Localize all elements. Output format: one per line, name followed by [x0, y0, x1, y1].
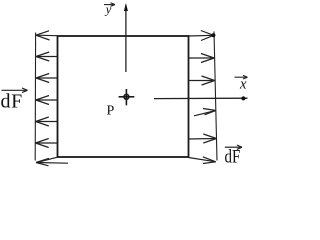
left dF arrow 3 — [36, 74, 57, 83]
left dF arrow 5 — [36, 117, 57, 126]
left dF arrow 7 (slanted at bottom corner) — [36, 157, 68, 166]
square plate element — [58, 36, 189, 157]
left load envelope line — [34, 33, 36, 161]
right dF arrow 4 (slightly slanted) — [194, 109, 216, 116]
right dF arrow 6 (slanted at bottom corner) — [189, 157, 216, 164]
left dF arrow 2 — [36, 52, 57, 61]
svg-text:dF: dF — [225, 147, 241, 168]
right dF arrow 5 — [189, 134, 217, 143]
svg-text:dF: dF — [1, 90, 23, 112]
left dF arrow 4 — [36, 96, 57, 105]
left dF arrow 6 — [36, 139, 58, 148]
x-axis arrowhead — [241, 96, 245, 100]
right load envelope line — [214, 32, 217, 161]
y-axis line — [125, 5, 127, 72]
point P crosshair — [119, 89, 135, 105]
right dF arrow 1 (along top edge, dot at tip) — [189, 31, 214, 41]
svg-text:P: P — [107, 104, 115, 119]
y-axis arrowhead — [124, 3, 128, 11]
x-axis line — [154, 97, 248, 99]
right dF arrow 2 — [189, 54, 215, 63]
left dF arrow 1 (at top edge level) — [36, 31, 57, 40]
right dF arrow 3 — [189, 76, 215, 85]
